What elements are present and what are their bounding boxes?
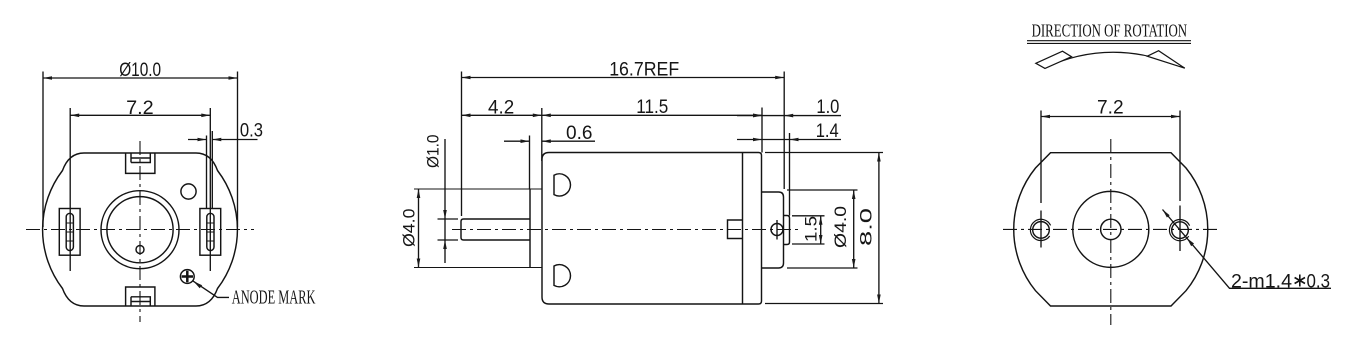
dim Ø1.0 dimension line (444, 139, 446, 263)
0.3 right edge line (211, 131, 213, 209)
dim Ø4.0 right extension lines (787, 190, 858, 268)
rear bearing crosshair (776, 220, 778, 240)
right terminal slot (207, 213, 214, 250)
dim 7.2 dimension line (70, 114, 210, 116)
left screw hole inner circle (1033, 222, 1050, 239)
svg-text:Ø1.0: Ø1.0 (424, 135, 443, 169)
rear face extension line (761, 108, 763, 153)
dim Ø1.0 extension ticks (438, 219, 459, 240)
dim 8.0 dimension line (878, 153, 880, 304)
dim 0.3 dimension line right tail (212, 139, 257, 141)
dim 1.4 right extension line (789, 133, 791, 216)
motor body outline (front view) (43, 153, 238, 306)
rear body outline (octagonal flattened circle) (1014, 153, 1208, 306)
dim 8.0 arrows (877, 153, 881, 304)
svg-text:Ø10.0: Ø10.0 (119, 60, 161, 81)
bearing inner circle (107, 197, 173, 263)
svg-text:0.3: 0.3 (1307, 271, 1331, 292)
rear notch window (728, 220, 743, 239)
svg-text:0.3: 0.3 (240, 121, 263, 142)
svg-text:8.0: 8.0 (857, 208, 876, 246)
svg-text:Ø4.0: Ø4.0 (400, 209, 419, 248)
left terminal slot (66, 213, 73, 250)
svg-text:11.5: 11.5 (636, 97, 668, 118)
direction of rotation double underline (1027, 41, 1191, 44)
left terminal slot ticks (66, 223, 73, 241)
dim 0.3 arrows (198, 138, 222, 142)
rear horizontal centerline (1003, 228, 1219, 230)
dim 0.3 dimension line left tail (188, 139, 207, 141)
anode mark cross (182, 271, 193, 282)
dim Ø10.0 extension lines (43, 72, 238, 228)
right screw hole crosshair (1179, 206, 1181, 252)
shaft outline (461, 219, 530, 240)
hub top line with Ø4.0 extension (414, 188, 542, 190)
screw spec leader line (1163, 210, 1332, 289)
svg-text:0.6: 0.6 (566, 123, 593, 144)
dim Ø4.0 left dimension line (418, 189, 420, 268)
dim 1.0 dimension line (737, 115, 841, 117)
dim 1.4 arrows (753, 138, 799, 142)
rear vertical centerline (1110, 139, 1112, 325)
anode leader line (193, 281, 229, 298)
bearing outer circle (101, 191, 179, 269)
left screw hole crosshair (1040, 211, 1042, 248)
dim 16.7REF right extension line (783, 72, 785, 190)
dim Ø4.0 right arrows (852, 190, 856, 268)
dim 16.7REF arrows (462, 76, 785, 80)
rotation arrow left head (hollow blade) (1036, 51, 1072, 68)
vent hole top (D shape) (554, 174, 570, 196)
0.3 left edge line (206, 136, 208, 209)
dim 4.2 arrows (462, 114, 542, 118)
bottom tab outer rect (126, 287, 155, 306)
screw spec leader arrowhead at hole (1187, 238, 1194, 246)
svg-text:7.2: 7.2 (1097, 98, 1124, 119)
hub front face (529, 189, 531, 268)
dim 1.0 arrows (753, 114, 793, 118)
svg-text:2-m1.4: 2-m1.4 (1231, 271, 1292, 292)
svg-text:16.7REF: 16.7REF (609, 60, 679, 81)
dim 16.7REF dimension line (462, 77, 785, 79)
screw spec leader arrowhead outer (1163, 210, 1170, 218)
svg-text:1.4: 1.4 (816, 121, 839, 142)
screw spec asterisk star (1295, 275, 1305, 287)
rotation arrow right head (hollow blade) (1147, 51, 1185, 68)
dim 7.2 arrows (70, 114, 210, 118)
rear boss (Ø4.0) (762, 192, 784, 268)
right terminal centerline / 7.2 extension (209, 108, 211, 271)
dim 7.2 rear extension lines (1041, 111, 1180, 204)
front face extension line (541, 108, 543, 161)
left terminal centerline (69, 108, 71, 271)
left terminal outer rect (59, 209, 80, 256)
rear shaft circle (1101, 219, 1121, 239)
rear boss circle (1073, 191, 1149, 267)
motor can outline (side view) (542, 153, 762, 305)
vent hole top-right (181, 184, 196, 199)
dim 7.2 rear arrows (1041, 115, 1180, 119)
svg-text:Ø4.0: Ø4.0 (831, 206, 850, 248)
dim 0.6 left extension line (529, 136, 531, 190)
dim Ø10.0 dimension line (43, 77, 238, 79)
right terminal outer rect (200, 209, 221, 256)
dim Ø10.0 arrows (43, 76, 238, 80)
anode mark circle (180, 270, 194, 284)
right terminal slot ticks (207, 223, 214, 241)
vent hole bottom (D shape) (554, 265, 570, 287)
dim Ø4.0 left arrows (417, 189, 421, 268)
hub bottom line with Ø4.0 extension (414, 267, 542, 269)
dim Ø1.0 arrows (443, 210, 447, 249)
anode leader arrowhead (193, 281, 202, 288)
dim 11.5 arrows (542, 114, 762, 118)
dim 8.0 extension lines (765, 153, 883, 304)
endbell joint line (742, 153, 744, 305)
dim Ø4.0 right dimension line (853, 190, 855, 268)
dim 1.5 extension lines (792, 216, 825, 244)
dim 1.5 arrows (819, 216, 823, 244)
dim 4.2/11.5 dimension line (462, 114, 763, 116)
dim 0.6 left tail (504, 140, 530, 142)
dim 1.4 dimension line (737, 139, 841, 141)
horizontal centerline (26, 229, 254, 231)
rotation arrow arc (1044, 52, 1185, 68)
right screw hole inner circle (1172, 222, 1189, 239)
svg-text:4.2: 4.2 (488, 97, 514, 118)
dim 16.7REF left extension line (461, 72, 463, 217)
vertical centerline (139, 141, 141, 322)
dim 1.5 dimension line (820, 216, 822, 244)
dim 7.2 rear dimension line (1041, 116, 1180, 118)
svg-text:7.2: 7.2 (126, 98, 154, 119)
shaft hole small circle (136, 246, 144, 254)
svg-text:1.5: 1.5 (802, 216, 821, 242)
right screw hole thread arc (1169, 220, 1189, 241)
top tab inner slot (131, 153, 150, 163)
bottom tab inner slot (131, 297, 150, 306)
svg-text:1.0: 1.0 (816, 97, 839, 118)
top tab outer rect (126, 153, 155, 173)
left screw hole thread arc (1030, 219, 1050, 240)
rear bearing circle (771, 224, 783, 236)
svg-text:DIRECTION OF ROTATION: DIRECTION OF ROTATION (1032, 21, 1188, 41)
svg-text:ANODE MARK: ANODE MARK (232, 286, 316, 308)
dim 0.6 right tail (542, 140, 595, 142)
dim 0.6 arrows (521, 139, 551, 143)
rear tip (1.5) (784, 216, 790, 245)
middle horizontal centerline (452, 229, 802, 231)
